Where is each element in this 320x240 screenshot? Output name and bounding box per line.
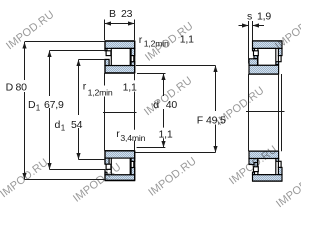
svg-text:D: D <box>6 82 14 94</box>
svg-text:1,2min: 1,2min <box>88 88 113 98</box>
svg-text:IMPOD.RU: IMPOD.RU <box>142 75 194 119</box>
svg-text:r: r <box>139 34 143 46</box>
svg-text:B: B <box>109 8 116 20</box>
svg-text:67,9: 67,9 <box>44 99 64 111</box>
svg-text:80: 80 <box>16 82 28 94</box>
svg-text:1,9: 1,9 <box>257 11 271 23</box>
svg-text:IMPOD.RU: IMPOD.RU <box>4 9 56 53</box>
svg-text:IMPOD.RU: IMPOD.RU <box>0 157 51 201</box>
svg-text:s: s <box>247 11 252 23</box>
svg-text:54: 54 <box>71 119 83 131</box>
svg-text:IMPOD.RU: IMPOD.RU <box>146 155 198 199</box>
svg-text:1: 1 <box>61 123 66 132</box>
svg-text:23: 23 <box>121 8 133 20</box>
svg-text:r: r <box>83 81 87 93</box>
svg-text:d: d <box>55 119 61 131</box>
svg-text:D: D <box>28 99 36 111</box>
svg-text:IMPOD.RU: IMPOD.RU <box>214 85 266 129</box>
svg-text:1,1: 1,1 <box>159 129 173 141</box>
svg-text:IMPOD.RU: IMPOD.RU <box>71 161 123 205</box>
svg-text:1: 1 <box>36 103 41 112</box>
svg-text:3,4min: 3,4min <box>120 133 145 143</box>
svg-text:1,1: 1,1 <box>123 82 137 94</box>
svg-text:F: F <box>197 114 203 126</box>
svg-text:IMPOD.RU: IMPOD.RU <box>273 9 301 53</box>
